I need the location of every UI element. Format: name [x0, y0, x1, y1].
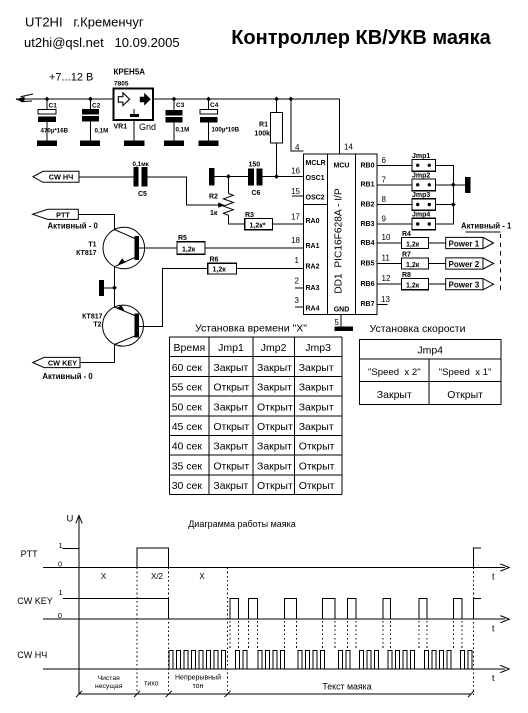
svg-text:6: 6	[382, 156, 387, 165]
svg-text:T1: T1	[88, 242, 96, 249]
svg-text:Закрыт: Закрыт	[377, 389, 412, 401]
jumper Jmp2	[412, 172, 436, 190]
svg-text:RA0: RA0	[306, 218, 320, 225]
svg-text:CW НЧ: CW НЧ	[49, 173, 74, 182]
ground (C2)	[80, 141, 100, 147]
svg-text:Активный - 0: Активный - 0	[42, 372, 93, 381]
svg-text:"Speed x 2": "Speed x 2"	[368, 367, 421, 378]
svg-text:Power 1: Power 1	[449, 239, 480, 248]
svg-text:PTT: PTT	[56, 210, 70, 219]
svg-text:R3: R3	[245, 212, 254, 219]
wire: R4 to Power 1	[429, 242, 446, 244]
svg-text:Открыт: Открыт	[213, 460, 249, 472]
svg-text:C6: C6	[252, 190, 261, 197]
resistor R5 1,2k	[177, 235, 205, 254]
svg-text:Jmp3: Jmp3	[412, 192, 430, 199]
svg-text:OSC2: OSC2	[306, 195, 325, 202]
svg-text:Power 3: Power 3	[449, 281, 480, 290]
svg-text:Gnd: Gnd	[139, 122, 156, 132]
wire: RB2 to Jmp3	[377, 204, 412, 206]
wire: Jmp4 to ground bus	[436, 205, 454, 225]
svg-text:MCU: MCU	[334, 163, 350, 170]
wire: ground bus vertical	[452, 165, 454, 224]
svg-text:Текст маяка: Текст маяка	[322, 682, 371, 692]
node CW KEY output flag	[33, 357, 80, 367]
pin 3 RA4 stub	[295, 306, 304, 308]
wire: T2 collector to CW KEY	[80, 345, 115, 363]
ground (OSC1 RC)	[209, 168, 215, 186]
svg-text:R2: R2	[209, 194, 218, 201]
svg-text:1: 1	[59, 541, 63, 550]
svg-text:RA1: RA1	[306, 243, 320, 250]
svg-text:15: 15	[291, 187, 300, 196]
svg-text:Установка времени "X": Установка времени "X"	[195, 323, 307, 335]
bottom interval ruler	[79, 693, 471, 695]
ground (MCU pin 5)	[335, 327, 354, 332]
ground (emitter node)	[99, 280, 104, 296]
svg-text:Открыт: Открыт	[257, 421, 293, 433]
svg-text:RB3: RB3	[361, 221, 375, 228]
node Power 1 output flag	[446, 237, 494, 248]
svg-text:Время: Время	[174, 342, 206, 354]
svg-text:55 сек: 55 сек	[172, 382, 203, 394]
svg-text:VR1: VR1	[114, 124, 128, 131]
resistor R8 1,2k	[402, 272, 429, 290]
svg-text:Активный - 0: Активный - 0	[48, 222, 99, 231]
wire: RB4 to R4	[377, 242, 401, 244]
voltage regulator VR1 KREN5A 7805	[114, 68, 157, 141]
capacitor C6 150	[248, 162, 263, 198]
svg-text:Непрерывный: Непрерывный	[175, 674, 221, 682]
svg-text:Jmp2: Jmp2	[412, 172, 430, 179]
svg-text:Диаграмма работы маяка: Диаграмма работы маяка	[188, 519, 296, 529]
svg-text:35 сек: 35 сек	[172, 460, 203, 472]
svg-text:7: 7	[382, 175, 387, 184]
PTT next-cycle edge	[473, 548, 481, 568]
wire: rail to MCLR pin 4	[291, 99, 304, 151]
svg-text:+7...12 В: +7...12 В	[49, 72, 93, 84]
resistor R6 1,2k	[208, 257, 237, 275]
CW KEY next-cycle edge	[473, 599, 481, 620]
CW KEY morse pulses	[230, 599, 462, 620]
svg-text:Открыт: Открыт	[299, 480, 335, 492]
svg-text:470µ*16В: 470µ*16В	[41, 128, 69, 135]
svg-text:C3: C3	[176, 102, 185, 109]
svg-text:1,2к: 1,2к	[406, 262, 420, 269]
svg-text:9: 9	[382, 215, 387, 224]
wire: R5 to RA1 pin 18	[205, 247, 304, 249]
svg-text:50 сек: 50 сек	[172, 401, 203, 413]
table: time settings grid	[170, 337, 342, 495]
wire: +V input rail	[16, 98, 339, 100]
svg-text:Закрыт: Закрыт	[257, 362, 292, 374]
svg-text:R6: R6	[210, 257, 219, 264]
transistor T1 KT817	[76, 227, 145, 269]
svg-text:17: 17	[291, 213, 300, 222]
wire: ground to C6 / OSC1 net	[215, 176, 248, 178]
svg-text:C1: C1	[49, 103, 58, 110]
svg-text:RA3: RA3	[306, 285, 320, 292]
dotted pulse guides	[230, 621, 462, 649]
svg-text:RB5: RB5	[361, 260, 375, 267]
svg-text:Закрыт: Закрыт	[299, 401, 334, 413]
resistor R4 1,2k	[402, 231, 429, 249]
wire: C6 to OSC1 pin 16	[263, 176, 304, 178]
svg-text:10: 10	[382, 233, 391, 242]
resistor R1 100k	[254, 97, 282, 177]
wire: PTT to T1 collector	[78, 214, 114, 229]
svg-text:RB4: RB4	[361, 240, 375, 247]
svg-text:Закрыт: Закрыт	[257, 382, 292, 394]
svg-text:X/2: X/2	[151, 572, 164, 581]
svg-text:Jmp3: Jmp3	[305, 342, 331, 354]
svg-text:Закрыт: Закрыт	[213, 441, 248, 453]
dotted guide line x=168.7	[168, 568, 170, 695]
svg-text:Закрыт: Закрыт	[299, 362, 334, 374]
ground (C4)	[199, 141, 219, 147]
wire: C5 to R2 wiper	[147, 177, 218, 205]
pin 15 OSC2 stub	[292, 195, 304, 197]
svg-text:тон: тон	[193, 683, 204, 690]
wire: RB3 to Jmp4	[377, 223, 412, 225]
active-1 dashed line	[500, 234, 502, 291]
svg-text:КТ817: КТ817	[76, 250, 97, 257]
svg-text:45 сек: 45 сек	[172, 421, 203, 433]
op-amp U1: microcontroller DD1 PIC16F628A box	[304, 154, 378, 315]
svg-text:MCLR: MCLR	[306, 160, 326, 167]
svg-text:X: X	[199, 572, 205, 581]
svg-text:60 сек: 60 сек	[172, 362, 203, 374]
dotted guide line x=137	[136, 568, 138, 695]
wire: T2 base to R6	[139, 269, 208, 327]
svg-text:RB6: RB6	[361, 281, 375, 288]
svg-text:C5: C5	[138, 191, 147, 198]
svg-text:100µ*10В: 100µ*10В	[212, 127, 240, 134]
svg-text:1,2к*: 1,2к*	[250, 222, 266, 229]
pin 13 RB7 stub	[377, 303, 387, 305]
svg-text:11: 11	[382, 254, 391, 263]
svg-text:Jmp4: Jmp4	[412, 212, 430, 219]
svg-text:Открыт: Открыт	[257, 401, 293, 413]
svg-text:14: 14	[344, 143, 353, 152]
svg-text:OSC1: OSC1	[306, 175, 325, 182]
dotted guide line x=473.3	[472, 568, 474, 698]
svg-text:Закрыт: Закрыт	[257, 460, 292, 472]
wire: ground to emitter node	[104, 287, 115, 289]
svg-text:7805: 7805	[114, 81, 129, 88]
svg-text:T2: T2	[93, 322, 101, 329]
svg-text:1,2к: 1,2к	[213, 267, 227, 274]
node Power 3 output flag	[446, 279, 494, 290]
jumper Jmp4	[412, 212, 436, 230]
svg-text:U: U	[67, 514, 74, 525]
svg-text:150: 150	[249, 162, 261, 169]
svg-text:Открыт: Открыт	[299, 441, 335, 453]
svg-text:RB0: RB0	[361, 163, 375, 170]
svg-text:0: 0	[58, 611, 62, 620]
svg-text:CW KEY: CW KEY	[17, 596, 53, 606]
svg-text:GND: GND	[334, 307, 350, 314]
wire: Jmp2 to ground bus	[436, 184, 465, 186]
svg-text:1: 1	[59, 588, 63, 597]
CW НЧ tone bursts	[169, 651, 472, 670]
wire: Jmp3 to ground bus	[436, 204, 454, 206]
svg-text:5: 5	[335, 318, 340, 327]
wire: T1 emitter / T2 emitter node	[114, 266, 116, 307]
svg-text:C2: C2	[92, 103, 101, 110]
wire: RB0 to Jmp1	[377, 164, 412, 166]
jumper Jmp3	[412, 192, 436, 210]
ground (jumpers)	[465, 177, 471, 193]
svg-text:40 сек: 40 сек	[172, 441, 203, 453]
svg-text:Закрыт: Закрыт	[213, 480, 248, 492]
svg-text:0: 0	[58, 559, 62, 568]
PTT pulse	[137, 548, 169, 568]
svg-text:Jmp1: Jmp1	[218, 342, 244, 354]
svg-text:0,1М: 0,1М	[95, 128, 109, 135]
CW KEY initial high level	[63, 599, 169, 620]
input arrow	[16, 97, 25, 103]
svg-text:несущая: несущая	[95, 683, 123, 690]
svg-text:Power 2: Power 2	[449, 260, 480, 269]
svg-text:DD1 PIC16F628A - I/P: DD1 PIC16F628A - I/P	[334, 188, 345, 294]
svg-text:Открыт: Открыт	[213, 421, 249, 433]
svg-text:КРЕН5А: КРЕН5А	[114, 68, 146, 77]
svg-text:Закрыт: Закрыт	[213, 401, 248, 413]
pin 2 RA3 stub	[295, 287, 304, 289]
svg-text:Jmp4: Jmp4	[417, 345, 443, 357]
svg-text:Открыт: Открыт	[257, 480, 293, 492]
svg-text:Открыт: Открыт	[299, 460, 335, 472]
svg-text:RA2: RA2	[306, 264, 320, 271]
svg-text:Открыт: Открыт	[213, 382, 249, 394]
svg-text:R5: R5	[178, 235, 187, 242]
R2 wiper arrow	[218, 202, 224, 207]
svg-text:30 сек: 30 сек	[172, 480, 203, 492]
svg-text:4: 4	[295, 143, 300, 152]
capacitor C2	[82, 97, 108, 141]
svg-text:2: 2	[295, 277, 300, 286]
svg-text:Чистая: Чистая	[98, 675, 121, 682]
svg-text:Закрыт: Закрыт	[257, 441, 292, 453]
ground (C1)	[37, 141, 57, 147]
svg-text:Закрыт: Закрыт	[299, 382, 334, 394]
capacitor C4	[200, 97, 240, 141]
ruler slash marks	[76, 691, 474, 697]
node PTT input flag	[33, 209, 79, 219]
wire: RB6 to R8	[377, 283, 401, 285]
wire: CW НЧ to C5	[79, 176, 133, 178]
svg-text:CW KEY: CW KEY	[48, 359, 77, 368]
svg-text:Закрыт: Закрыт	[213, 362, 248, 374]
svg-text:UT2HI г.Кременчуг: UT2HI г.Кременчуг	[25, 15, 144, 30]
capacitor C1	[38, 97, 69, 141]
svg-text:Активный - 1: Активный - 1	[461, 222, 512, 231]
svg-text:RB7: RB7	[361, 301, 375, 308]
svg-text:13: 13	[381, 295, 390, 304]
svg-text:Контроллер КВ/УКВ маяка: Контроллер КВ/УКВ маяка	[231, 27, 491, 49]
svg-text:1к: 1к	[210, 210, 218, 217]
active-1 bracket line	[466, 231, 501, 233]
svg-text:X: X	[101, 572, 107, 581]
svg-text:КТ817: КТ817	[82, 314, 103, 321]
svg-text:C4: C4	[210, 102, 219, 109]
wire: T1 base to R5	[139, 247, 177, 249]
svg-text:0,1М: 0,1М	[176, 127, 190, 134]
wire: GND pin 5	[340, 315, 342, 327]
svg-text:RB1: RB1	[361, 182, 375, 189]
svg-text:PTT: PTT	[21, 549, 39, 559]
svg-text:тихо: тихо	[144, 681, 159, 688]
svg-text:3: 3	[295, 296, 300, 305]
node CW НЧ output flag	[33, 171, 79, 182]
svg-text:100k: 100k	[254, 131, 270, 138]
svg-text:CW НЧ: CW НЧ	[17, 650, 47, 660]
svg-text:Jmp2: Jmp2	[261, 342, 287, 354]
transistor T2 KT817	[82, 305, 143, 346]
svg-text:Закрыт: Закрыт	[299, 421, 334, 433]
node Power 2 output flag	[446, 258, 494, 269]
svg-text:1,2к: 1,2к	[406, 241, 420, 248]
svg-text:16: 16	[291, 167, 300, 176]
wire: R8 to Power 3	[429, 283, 446, 285]
svg-text:Jmp1: Jmp1	[412, 153, 430, 160]
svg-text:0,1мк: 0,1мк	[133, 161, 150, 168]
wire: R7 to Power 2	[429, 263, 446, 265]
table: speed settings grid	[359, 340, 501, 405]
capacitor C3	[166, 97, 190, 141]
capacitor C5 0,1mk	[133, 161, 150, 198]
resistor R7 1,2k	[402, 252, 429, 270]
wire: rail to VDD pin 14	[338, 99, 340, 154]
resistor R3 1,2k*	[245, 212, 273, 230]
trimmer R2 1k	[209, 177, 233, 218]
wire: RB1 to Jmp2	[377, 184, 412, 186]
svg-text:1: 1	[295, 256, 300, 265]
svg-text:R1: R1	[259, 122, 268, 129]
svg-text:ut2hi@qsl.net 10.09.2005: ut2hi@qsl.net 10.09.2005	[24, 35, 180, 50]
jumper Jmp1	[412, 153, 436, 171]
svg-text:1,2к: 1,2к	[182, 246, 196, 253]
wire: Jmp1 to ground bus	[436, 165, 454, 185]
svg-text:12: 12	[382, 274, 391, 283]
dotted guide line x=227.5	[227, 568, 229, 695]
ground (C3)	[164, 141, 184, 147]
ground (VR1)	[124, 141, 145, 147]
svg-text:Установка скорости: Установка скорости	[370, 323, 466, 335]
wire: R3 to RA0 pin 17	[273, 223, 304, 225]
svg-text:"Speed x 1": "Speed x 1"	[439, 367, 492, 378]
svg-text:RB2: RB2	[361, 201, 375, 208]
wire: R2 bottom to R3	[228, 215, 244, 224]
svg-text:18: 18	[291, 236, 300, 245]
svg-text:RA4: RA4	[306, 306, 320, 313]
svg-text:8: 8	[382, 195, 387, 204]
wire: R6 to RA2 pin 1	[236, 268, 303, 270]
svg-text:Открыт: Открыт	[447, 389, 483, 401]
svg-text:1,2к: 1,2к	[406, 283, 420, 290]
wire: RB5 to R7	[377, 263, 401, 265]
